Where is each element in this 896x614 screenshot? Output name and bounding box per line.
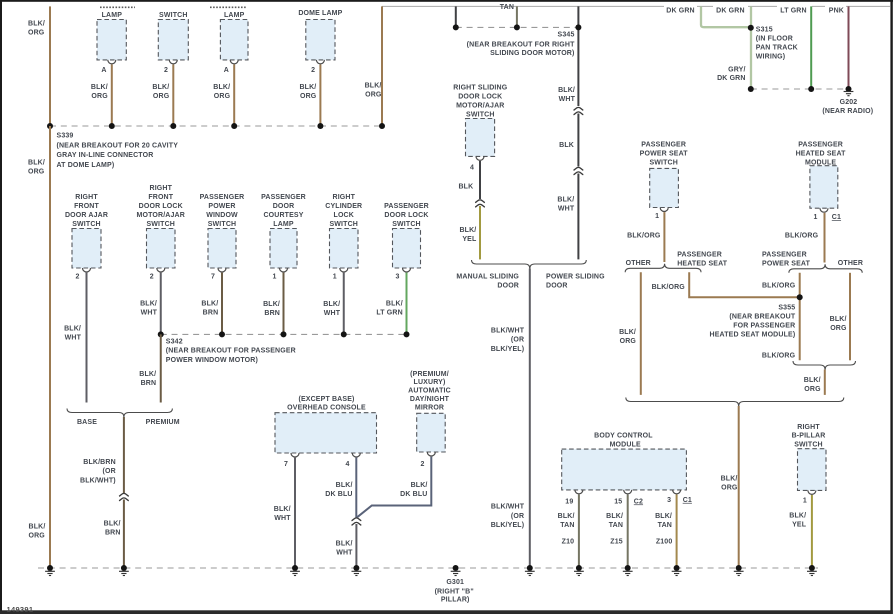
svg-text:1: 1 — [272, 274, 276, 281]
page border frame — [0, 0, 893, 2]
pin 2 of visor/vanity lamp switch — [169, 60, 177, 64]
svg-text:2: 2 — [311, 67, 315, 74]
svg-text:BLK/: BLK/ — [299, 84, 316, 91]
pin 1 of b-pillar switch — [808, 490, 816, 494]
svg-text:BLK/ORG: BLK/ORG — [762, 283, 796, 290]
svg-text:ORG: ORG — [28, 30, 45, 37]
svg-text:1: 1 — [655, 213, 659, 220]
svg-text:1: 1 — [813, 214, 817, 221]
svg-text:GRAY IN-LINE CONNECTOR: GRAY IN-LINE CONNECTOR — [57, 152, 154, 159]
pin 7 of overhead console — [291, 453, 299, 457]
wire BLK/ORG from visor/vanity lamp switch to S339 — [172, 65, 174, 127]
svg-text:Z15: Z15 — [610, 539, 623, 546]
svg-text:BLK/: BLK/ — [789, 513, 806, 520]
ground junction on G301 bus — [809, 565, 815, 571]
junction on G202 bus — [808, 86, 814, 92]
ground junction on G301 bus — [625, 565, 631, 571]
svg-text:(OR: (OR — [511, 337, 524, 344]
wire BLK/ORG from heated seat module — [824, 213, 826, 263]
pin 3 of BCM — [673, 490, 681, 494]
svg-text:AUTOMATIC: AUTOMATIC — [408, 388, 451, 395]
svg-text:BLK/: BLK/ — [323, 301, 340, 308]
junction on S342 — [404, 331, 410, 337]
wire BLK/BRN to ground bus — [123, 500, 125, 569]
svg-text:ORG: ORG — [721, 484, 738, 491]
svg-text:BLK/: BLK/ — [64, 325, 81, 332]
svg-text:WIRING): WIRING) — [756, 53, 785, 60]
svg-text:BLK/ORG: BLK/ORG — [652, 284, 686, 291]
svg-text:WHT: WHT — [336, 550, 353, 557]
svg-text:TAN: TAN — [560, 522, 574, 529]
pin A of visor/vanity lamp (right) — [108, 60, 116, 64]
svg-text:ORG: ORG — [365, 92, 382, 99]
svg-text:BLK/: BLK/ — [336, 541, 353, 548]
svg-text:ORG: ORG — [91, 93, 108, 100]
svg-text:AT DOME LAMP): AT DOME LAMP) — [57, 162, 115, 169]
junction on S345 — [453, 24, 459, 30]
svg-text:BLK/YEL): BLK/YEL) — [491, 346, 524, 353]
svg-text:DK GRN: DK GRN — [716, 7, 745, 14]
ground G202 — [846, 86, 852, 92]
svg-text:SWITCH: SWITCH — [329, 221, 358, 228]
junction on S342 — [281, 331, 287, 337]
svg-text:MANUAL SLIDING: MANUAL SLIDING — [456, 274, 519, 281]
svg-text:WHT: WHT — [141, 309, 158, 316]
top clipped separator line — [382, 5, 890, 7]
svg-text:(OR: (OR — [103, 468, 116, 475]
junction on S339 — [109, 123, 115, 129]
svg-text:SWITCH: SWITCH — [466, 111, 495, 118]
junction on S339 — [47, 123, 53, 129]
wire stub TAN to S345 — [516, 6, 518, 27]
svg-text:FRONT: FRONT — [148, 194, 173, 201]
ground junction on G301 bus — [527, 565, 533, 571]
wire LT GRN to G202 bus — [810, 6, 812, 89]
svg-text:C1: C1 — [683, 497, 692, 504]
G202 dashed ground bus — [751, 88, 849, 90]
svg-text:FRONT: FRONT — [74, 203, 99, 210]
wire BLK/YEL b-pillar switch to ground bus — [811, 495, 813, 568]
svg-text:(NEAR BREAKOUT: (NEAR BREAKOUT — [729, 314, 795, 321]
wire BLK/BRN courtesy lamp to S342 — [283, 273, 285, 335]
svg-text:C1: C1 — [832, 214, 841, 221]
svg-text:BLK/ORG: BLK/ORG — [785, 233, 819, 240]
svg-text:DOOR LOCK: DOOR LOCK — [458, 93, 502, 100]
pin 4 of overhead console — [352, 453, 360, 457]
svg-text:RIGHT SLIDING: RIGHT SLIDING — [453, 84, 507, 91]
svg-text:BODY CONTROL: BODY CONTROL — [594, 432, 653, 439]
svg-text:BLK/: BLK/ — [29, 523, 46, 530]
svg-text:S345: S345 — [558, 32, 575, 39]
wire BLK/BRN from S342 down to PREMIUM brace — [160, 334, 162, 402]
svg-text:LT GRN: LT GRN — [376, 310, 402, 317]
svg-text:DK BLU: DK BLU — [400, 491, 427, 498]
ground junction on G301 bus — [736, 565, 742, 571]
wire BLK/ORG heated-seat branch elbow to S355 — [689, 272, 797, 297]
svg-text:DOOR LOCK: DOOR LOCK — [139, 203, 183, 210]
svg-text:7: 7 — [284, 461, 288, 468]
svg-text:PASSENGER: PASSENGER — [261, 194, 306, 201]
svg-text:ORG: ORG — [804, 386, 821, 393]
wire BLK/ORG from visor/vanity lamp (left) to S339 — [233, 65, 235, 127]
svg-text:G202: G202 — [840, 99, 858, 106]
splice S339 dashed bus — [50, 125, 382, 127]
svg-text:BLK/: BLK/ — [336, 482, 353, 489]
svg-text:ORG: ORG — [153, 93, 170, 100]
svg-text:TAN: TAN — [609, 522, 623, 529]
svg-text:BLK: BLK — [559, 142, 574, 149]
wire BLK/LT GRN door lock switch to S342 — [406, 273, 408, 335]
svg-text:LAMP: LAMP — [102, 12, 123, 19]
svg-text:A: A — [101, 67, 106, 74]
wire BLK/ORG left feeder (top section) — [49, 6, 51, 126]
svg-text:ORG: ORG — [620, 338, 637, 345]
wire BLK segment — [577, 114, 579, 167]
svg-text:WINDOW: WINDOW — [206, 212, 238, 219]
ground junction on G301 bus — [121, 565, 127, 571]
junction on S342 — [341, 331, 347, 337]
svg-text:MOTOR/AJAR: MOTOR/AJAR — [137, 212, 185, 219]
junction on S342 — [219, 331, 225, 337]
svg-text:DK GRN: DK GRN — [666, 7, 695, 14]
svg-text:BLK/: BLK/ — [411, 482, 428, 489]
svg-text:TAN: TAN — [500, 4, 514, 11]
svg-text:(NEAR BREAKOUT FOR RIGHT: (NEAR BREAKOUT FOR RIGHT — [467, 41, 575, 48]
wire BLK/WHT from top through S345 — [577, 6, 579, 106]
wire BLK/YEL to MANUAL SLIDING DOOR brace — [479, 206, 481, 259]
svg-text:LUXURY): LUXURY) — [414, 379, 446, 386]
svg-text:SWITCH: SWITCH — [146, 221, 175, 228]
svg-text:2: 2 — [164, 67, 168, 74]
wire BLK/WHT door lock motor to S342 — [160, 273, 162, 335]
wire BLK/WHT door ajar switch to BASE brace — [86, 273, 88, 403]
pin 2 of right front door lock motor/ajar switch — [157, 268, 165, 272]
wire BLK/TAN Z10 from BCM pin 19 — [578, 495, 580, 569]
svg-text:BLK/: BLK/ — [558, 87, 575, 94]
svg-text:DK BLU: DK BLU — [325, 491, 352, 498]
ground junction on G301 bus — [576, 565, 582, 571]
svg-text:S355: S355 — [778, 304, 795, 311]
pin 19 of BCM — [575, 490, 583, 494]
svg-text:BRN: BRN — [264, 310, 280, 317]
wire BLK/ORG main seat ground drop — [738, 406, 740, 568]
wire BLK/ORG power-seat branch down through S355 — [799, 273, 801, 361]
svg-text:DOOR: DOOR — [546, 282, 568, 289]
junction on S339 — [231, 123, 237, 129]
svg-text:ORG: ORG — [28, 168, 45, 175]
svg-text:MODULE: MODULE — [610, 442, 641, 449]
svg-text:1: 1 — [803, 498, 807, 505]
svg-text:(NEAR BREAKOUT FOR 20 CAVITY: (NEAR BREAKOUT FOR 20 CAVITY — [57, 143, 179, 150]
pin 4 of sliding door lock motor switch — [476, 156, 484, 160]
svg-text:A: A — [224, 67, 229, 74]
svg-text:PASSENGER: PASSENGER — [384, 203, 429, 210]
junction on S342 — [158, 331, 164, 337]
inline connector on right sliding wire — [574, 107, 584, 114]
svg-text:BLK/: BLK/ — [386, 301, 403, 308]
wire BLK/WHT cylinder lock switch to S342 — [343, 273, 345, 335]
svg-text:PASSENGER: PASSENGER — [762, 252, 807, 259]
wire BLK/ORG OTHER branch (right) — [849, 273, 851, 361]
brace PASSENGER POWER SEAT / OTHER split — [789, 264, 862, 273]
svg-text:YEL: YEL — [462, 236, 477, 243]
svg-text:RIGHT: RIGHT — [75, 194, 98, 201]
brace BASE/PREMIUM merge — [67, 409, 172, 418]
svg-text:2: 2 — [75, 274, 79, 281]
svg-text:LOCK: LOCK — [334, 212, 354, 219]
svg-text:(NEAR RADIO): (NEAR RADIO) — [822, 108, 873, 115]
svg-text:BLK/: BLK/ — [655, 513, 672, 520]
svg-text:PASSENGER: PASSENGER — [677, 252, 722, 259]
svg-text:ORG: ORG — [830, 325, 847, 332]
svg-text:4: 4 — [470, 165, 474, 172]
svg-text:(EXCEPT BASE): (EXCEPT BASE) — [298, 396, 354, 403]
wire BLK/WHT (OR BLK/YEL) long drop to ground bus — [529, 269, 531, 569]
svg-text:DOOR: DOOR — [497, 282, 519, 289]
svg-text:DOOR AJAR: DOOR AJAR — [65, 212, 108, 219]
junction on S345 — [514, 24, 520, 30]
svg-text:LAMP: LAMP — [273, 221, 294, 228]
svg-text:BRN: BRN — [141, 380, 157, 387]
svg-text:B-PILLAR: B-PILLAR — [792, 433, 826, 440]
svg-text:BLK/WHT: BLK/WHT — [491, 504, 525, 511]
svg-text:WHT: WHT — [559, 96, 576, 103]
pin 3 of passenger door lock switch — [403, 268, 411, 272]
inline connector on sliding door wire — [475, 200, 485, 207]
junction on S339 — [379, 123, 385, 129]
inline connector below merged DK BLU wires — [352, 518, 362, 525]
svg-text:BLK/: BLK/ — [139, 371, 156, 378]
svg-text:(PREMIUM/: (PREMIUM/ — [410, 371, 449, 378]
svg-text:BLK/: BLK/ — [28, 159, 45, 166]
splice S342 dashed bus — [161, 333, 407, 335]
inline connector 2 on right sliding wire — [574, 167, 584, 174]
svg-text:PAN TRACK: PAN TRACK — [756, 44, 798, 51]
svg-text:POWER SEAT: POWER SEAT — [762, 260, 811, 267]
svg-text:PREMIUM: PREMIUM — [146, 419, 180, 426]
svg-text:19: 19 — [565, 498, 573, 505]
ground junction on G301 bus — [453, 565, 459, 571]
svg-text:DOOR: DOOR — [273, 203, 295, 210]
wire stub to S345 — [455, 6, 457, 27]
svg-text:BLK/: BLK/ — [365, 83, 382, 90]
wire BLK/DK BLU mirror pin 2 elbow joining console wire — [357, 457, 431, 518]
svg-text:POWER SEAT: POWER SEAT — [640, 151, 689, 158]
svg-text:PASSENGER: PASSENGER — [641, 142, 686, 149]
svg-text:C2: C2 — [634, 498, 643, 505]
wire BLK/DK BLU console pin 4 — [355, 458, 357, 518]
svg-text:BLK/WHT): BLK/WHT) — [80, 477, 116, 484]
pin 1 of right cylinder lock switch — [340, 268, 348, 272]
svg-text:HEATED SEAT: HEATED SEAT — [796, 151, 847, 158]
svg-text:SWITCH: SWITCH — [794, 442, 823, 449]
svg-text:SWITCH: SWITCH — [649, 159, 678, 166]
svg-text:HEATED SEAT MODULE): HEATED SEAT MODULE) — [709, 332, 795, 339]
svg-text:HEATED SEAT: HEATED SEAT — [677, 260, 728, 267]
svg-text:BLK/ORG: BLK/ORG — [762, 353, 796, 360]
svg-text:BLK/: BLK/ — [804, 377, 821, 384]
svg-text:3: 3 — [395, 274, 399, 281]
svg-text:BRN: BRN — [203, 309, 219, 316]
G301 dashed ground bus — [38, 567, 818, 569]
svg-text:WHT: WHT — [324, 310, 341, 317]
svg-text:BRN: BRN — [105, 530, 121, 537]
wire BLK/BRN power window switch to S342 — [221, 273, 223, 335]
svg-text:WHT: WHT — [65, 334, 82, 341]
ground junction on G301 bus — [353, 565, 359, 571]
pin 1 of passenger door courtesy lamp — [280, 268, 288, 272]
pin 2 of dome lamp — [316, 60, 324, 64]
wire BLK/ORG OTHER branch down to big brace — [640, 272, 642, 395]
wire BLK/WHT console pin 7 to ground bus — [294, 458, 296, 568]
svg-text:SWITCH: SWITCH — [72, 221, 101, 228]
svg-text:BLK/: BLK/ — [263, 301, 280, 308]
svg-text:POWER: POWER — [208, 203, 235, 210]
brace OTHER / PASSENGER HEATED SEAT split — [625, 264, 701, 273]
svg-text:S339: S339 — [57, 132, 74, 139]
wire BLK/TAN Z15 from BCM pin 15 — [627, 495, 629, 569]
big brace merge to single ground wire — [626, 398, 844, 407]
svg-text:4: 4 — [345, 461, 349, 468]
wire BLK from pin 4 — [479, 161, 481, 199]
svg-text:2: 2 — [420, 461, 424, 468]
junction on S345 — [575, 24, 581, 30]
svg-text:WHT: WHT — [558, 205, 575, 212]
svg-text:BLK/: BLK/ — [104, 520, 121, 527]
svg-text:COURTESY: COURTESY — [263, 212, 303, 219]
svg-text:3: 3 — [667, 497, 671, 504]
svg-text:RIGHT: RIGHT — [149, 185, 172, 192]
svg-text:PILLAR): PILLAR) — [441, 597, 470, 604]
splice S345 dashed bus — [456, 26, 579, 28]
svg-text:DOOR LOCK: DOOR LOCK — [384, 212, 428, 219]
svg-text:PASSENGER: PASSENGER — [200, 194, 245, 201]
wire BLK/ORG left feeder (mid section) — [49, 126, 51, 568]
svg-text:BLK/: BLK/ — [91, 84, 108, 91]
svg-text:SWITCH: SWITCH — [159, 12, 188, 19]
svg-text:OTHER: OTHER — [838, 260, 863, 267]
svg-text:BLK/: BLK/ — [830, 316, 847, 323]
inline connector on BLK/BRN wire — [119, 493, 129, 500]
svg-text:2: 2 — [150, 274, 154, 281]
svg-text:BLK/BRN: BLK/BRN — [83, 459, 116, 466]
junction on S339 — [317, 123, 323, 129]
brace MANUAL/POWER SLIDING DOOR merge — [472, 260, 587, 269]
svg-text:BLK/: BLK/ — [28, 21, 45, 28]
pin 7 of passenger power window switch — [218, 268, 226, 272]
wire BLK/TAN Z100 from BCM pin 3 — [676, 495, 678, 569]
ground junction on G301 bus — [674, 565, 680, 571]
svg-text:LT GRN: LT GRN — [780, 7, 806, 14]
svg-text:DK GRN: DK GRN — [717, 75, 746, 82]
svg-text:15: 15 — [614, 498, 622, 505]
svg-text:BASE: BASE — [77, 419, 97, 426]
svg-text:SLIDING DOOR MOTOR): SLIDING DOOR MOTOR) — [490, 50, 574, 57]
pin 2 of mirror — [427, 452, 435, 456]
svg-text:ORG: ORG — [300, 93, 317, 100]
svg-text:BLK/ORG: BLK/ORG — [627, 233, 661, 240]
svg-text:BLK/: BLK/ — [459, 227, 476, 234]
clipped header text remnant above right visor lamp — [100, 6, 135, 8]
svg-text:BLK/: BLK/ — [606, 513, 623, 520]
svg-text:BLK/WHT: BLK/WHT — [491, 327, 525, 334]
svg-text:ORG: ORG — [29, 532, 46, 539]
pin 1 of passenger power seat switch — [660, 208, 668, 212]
wire BLK/WHT segment to POWER SLIDING DOOR brace — [577, 174, 579, 260]
svg-text:BLK: BLK — [458, 184, 473, 191]
svg-text:DOME LAMP: DOME LAMP — [298, 10, 342, 17]
svg-text:SWITCH: SWITCH — [392, 221, 421, 228]
svg-text:Z100: Z100 — [656, 539, 673, 546]
clipped header text remnant above left visor lamp — [210, 6, 246, 8]
wire BLK/ORG brace output — [824, 370, 826, 395]
svg-text:GRY/: GRY/ — [728, 67, 745, 74]
svg-text:BLK/: BLK/ — [619, 329, 636, 336]
svg-text:CYLINDER: CYLINDER — [325, 203, 362, 210]
wire BLK/BRN (OR BLK/WHT) brace output — [123, 417, 125, 494]
svg-text:MOTOR/AJAR: MOTOR/AJAR — [456, 102, 504, 109]
svg-text:TAN: TAN — [658, 522, 672, 529]
svg-text:(IN FLOOR: (IN FLOOR — [756, 35, 793, 42]
svg-text:ORG: ORG — [214, 93, 231, 100]
junction on S339 — [170, 123, 176, 129]
svg-text:BLK/YEL): BLK/YEL) — [491, 522, 524, 529]
wire BLK/ORG from visor/vanity lamp (right) to S339 — [111, 65, 113, 127]
ground junction on G301 bus — [292, 565, 298, 571]
svg-text:OVERHEAD CONSOLE: OVERHEAD CONSOLE — [287, 405, 366, 412]
wire DK GRN vertical through S315 — [750, 6, 752, 89]
svg-text:YEL: YEL — [792, 522, 807, 529]
pin 2 of right front door ajar switch — [83, 268, 91, 272]
svg-text:(NEAR BREAKOUT FOR PASSENGER: (NEAR BREAKOUT FOR PASSENGER — [166, 348, 296, 355]
wire BLK/ORG from dome lamp to S339 — [319, 65, 321, 127]
svg-text:(RIGHT "B": (RIGHT "B" — [435, 588, 474, 595]
svg-text:BLK/: BLK/ — [140, 300, 157, 307]
junction S355 — [797, 294, 803, 300]
svg-text:(OR: (OR — [511, 513, 524, 520]
svg-text:BLK/: BLK/ — [274, 506, 291, 513]
svg-text:WHT: WHT — [274, 515, 291, 522]
svg-text:BLK/: BLK/ — [557, 196, 574, 203]
svg-text:BLK/: BLK/ — [721, 475, 738, 482]
svg-text:BLK/: BLK/ — [201, 300, 218, 307]
pin A of visor/vanity lamp (left) — [230, 60, 238, 64]
pin 1 / C1 of heated seat module — [820, 208, 828, 212]
svg-text:BLK/: BLK/ — [213, 84, 230, 91]
svg-text:G301: G301 — [446, 579, 464, 586]
junction on G202 bus — [748, 86, 754, 92]
svg-text:POWER WINDOW MOTOR): POWER WINDOW MOTOR) — [166, 357, 258, 364]
svg-text:PNK: PNK — [829, 7, 844, 14]
svg-text:SWITCH: SWITCH — [208, 221, 237, 228]
pin 15 of BCM — [624, 490, 632, 494]
junction S315 — [748, 25, 754, 31]
svg-text:PASSENGER: PASSENGER — [798, 142, 843, 149]
svg-text:MIRROR: MIRROR — [415, 405, 444, 412]
svg-text:7: 7 — [211, 274, 215, 281]
svg-text:POWER SLIDING: POWER SLIDING — [546, 274, 605, 281]
svg-text:LAMP: LAMP — [224, 12, 245, 19]
wire PNK to ground G202 — [848, 6, 850, 86]
svg-text:1: 1 — [333, 274, 337, 281]
wire DK GRN elbow feeder to S315 — [664, 3, 697, 13]
wire BLK/WHT to ground bus — [355, 524, 357, 568]
wire BLK/ORG from power seat switch pin 1 — [663, 212, 665, 262]
svg-text:Z10: Z10 — [562, 539, 575, 546]
svg-text:OTHER: OTHER — [626, 260, 651, 267]
brace heated-seat merge — [793, 361, 856, 370]
svg-text:BLK/: BLK/ — [558, 513, 575, 520]
